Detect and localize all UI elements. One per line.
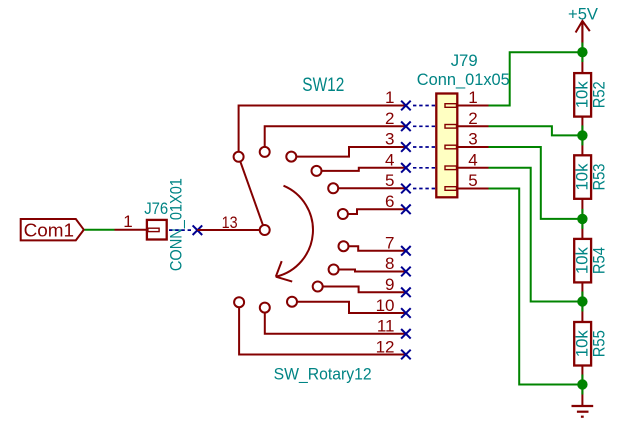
- svg-text:10k: 10k: [573, 163, 591, 191]
- contact 8: [329, 265, 339, 275]
- svg-text:3: 3: [385, 130, 394, 149]
- svg-text:8: 8: [385, 254, 394, 273]
- svg-text:R54: R54: [590, 247, 608, 274]
- junction R53/R54: [577, 214, 587, 224]
- wire pin1 to +5V rail: [489, 52, 583, 105]
- svg-text:J76: J76: [144, 199, 168, 218]
- junction R55/GND: [577, 379, 587, 389]
- svg-text:2: 2: [468, 109, 477, 128]
- wire row 1: [239, 106, 406, 152]
- no-connect X marks rows 1-12: [401, 101, 411, 360]
- svg-text:CONN_01X01: CONN_01X01: [166, 178, 185, 271]
- junction R54/R55: [577, 296, 587, 306]
- J79 pin tabs: [445, 104, 457, 191]
- connector J79 body: [436, 94, 457, 198]
- svg-text:SW12: SW12: [302, 75, 344, 96]
- wire pin5 to junction R55/GND: [489, 189, 583, 385]
- J79 pin numbers: [468, 88, 477, 190]
- svg-text:R53: R53: [590, 164, 608, 191]
- switch row wires: [239, 106, 406, 355]
- J79 pin lines: [457, 106, 488, 189]
- svg-text:R52: R52: [590, 81, 608, 108]
- dashed graphic lines rows 1-5 to J79: [413, 106, 436, 189]
- wire row 2: [265, 126, 406, 147]
- wire row 7: [349, 246, 407, 251]
- svg-text:5: 5: [385, 171, 394, 190]
- svg-text:Com1: Com1: [24, 220, 75, 241]
- no-connect X at pin 13 wire end: [193, 225, 203, 235]
- wire pin2 to junction R52/R53: [489, 126, 583, 135]
- svg-text:10k: 10k: [573, 329, 591, 357]
- svg-text:9: 9: [385, 275, 394, 294]
- common contact 13: [260, 225, 270, 235]
- rotation arc arrow: [276, 186, 313, 282]
- wire pin4 to junction R54/R55: [489, 168, 583, 302]
- svg-text:5: 5: [468, 171, 477, 190]
- resistor chain vertical line: [581, 21, 583, 406]
- contact 9: [313, 282, 323, 292]
- connector J76 body: [147, 220, 167, 240]
- resistor R53: [574, 155, 591, 199]
- svg-text:11: 11: [377, 317, 395, 336]
- junction R52/R53: [577, 130, 587, 140]
- contact 3: [286, 152, 296, 162]
- wire row 6: [348, 209, 406, 214]
- switch pin numbers: [376, 88, 395, 356]
- dashed graphic line J76 to NC: [169, 229, 192, 231]
- svg-text:1: 1: [385, 88, 394, 107]
- contact 10: [287, 297, 297, 307]
- svg-text:7: 7: [385, 234, 394, 253]
- svg-text:3: 3: [468, 130, 477, 149]
- contact 5: [328, 183, 338, 193]
- contact 2: [260, 147, 270, 157]
- contact 11: [260, 303, 270, 313]
- svg-text:4: 4: [385, 151, 394, 170]
- wire row 9: [323, 287, 406, 293]
- svg-text:+5V: +5V: [568, 5, 599, 24]
- contact 6: [338, 209, 348, 219]
- wire row 8: [339, 270, 406, 272]
- svg-text:10k: 10k: [573, 246, 591, 274]
- svg-text:2: 2: [385, 109, 394, 128]
- wire row 10: [297, 302, 406, 313]
- global label Com1: [21, 219, 84, 240]
- resistor R54: [574, 239, 591, 283]
- svg-text:J79: J79: [451, 51, 478, 70]
- wire row 11: [265, 313, 406, 334]
- junction dots: [577, 47, 587, 390]
- contact 7: [339, 241, 349, 251]
- junction +5V/pin1: [577, 47, 587, 57]
- svg-text:1: 1: [123, 212, 132, 231]
- wire row 3: [296, 147, 406, 157]
- svg-text:10: 10: [376, 296, 395, 315]
- svg-text:12: 12: [376, 337, 395, 356]
- resistor R55: [574, 322, 591, 366]
- svg-text:SW_Rotary12: SW_Rotary12: [274, 364, 372, 383]
- wire row 5: [338, 187, 406, 189]
- wire pin3 to junction R53/R54: [489, 147, 583, 219]
- svg-text:Conn_01x05: Conn_01x05: [417, 70, 510, 89]
- svg-text:6: 6: [385, 192, 394, 211]
- switch contact circles: [234, 147, 349, 313]
- pin 1 of J76: [115, 229, 147, 231]
- contact 1: [234, 152, 244, 162]
- rotor arm: [240, 162, 263, 226]
- power symbol +5V: [576, 21, 590, 43]
- resistor R52: [574, 73, 591, 117]
- contact 12: [234, 297, 244, 307]
- wire to SW12 pin 13: [197, 229, 259, 231]
- wire segments (green) on chain: [581, 43, 583, 395]
- wire row 4: [322, 168, 407, 171]
- svg-text:4: 4: [468, 151, 477, 170]
- svg-text:1: 1: [468, 88, 477, 107]
- ground symbol: [572, 406, 594, 417]
- contact 4: [312, 166, 322, 176]
- svg-text:13: 13: [222, 213, 238, 232]
- svg-text:R55: R55: [590, 330, 608, 357]
- wire row 12: [239, 307, 406, 354]
- svg-text:10k: 10k: [573, 81, 591, 109]
- wire Com1 to J76 pin 1: [85, 229, 115, 231]
